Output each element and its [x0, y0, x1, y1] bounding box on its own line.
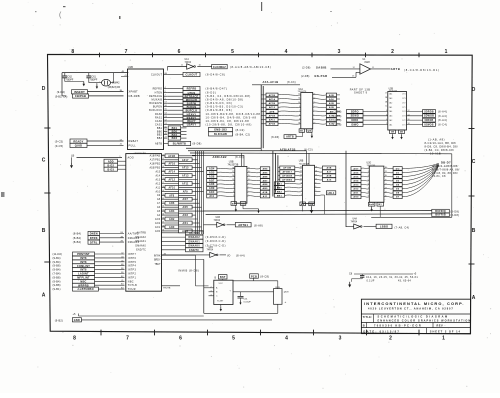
svg-text:AO2: AO2 — [353, 188, 359, 191]
svg-text:AO4: AO4 — [169, 210, 175, 213]
pin 2 — [209, 287, 214, 289]
wire — [204, 224, 217, 226]
ground — [235, 205, 237, 207]
wire — [361, 171, 369, 174]
wire — [192, 198, 197, 200]
wire — [371, 216, 452, 218]
wire bus — [190, 152, 452, 155]
wire — [364, 226, 377, 228]
ground — [401, 134, 403, 135]
svg-text:7: 7 — [299, 110, 300, 112]
wire — [247, 183, 260, 186]
svg-text:(9-B8): (9-B8) — [53, 275, 61, 279]
pins B1 QB — [299, 129, 305, 133]
svg-text:READY: READY — [73, 139, 83, 143]
svg-text:1Y4: 1Y4 — [402, 111, 405, 113]
svg-text:BLD/AHB: BLD/AHB — [214, 133, 227, 136]
svg-text:6: 6 — [386, 115, 387, 117]
svg-text:13: 13 — [232, 179, 234, 181]
net AF1B — [266, 122, 278, 126]
svg-text:74F04: 74F04 — [185, 62, 192, 64]
svg-text:1Y2: 1Y2 — [402, 120, 405, 122]
svg-text:D2: D2 — [396, 176, 400, 178]
ground — [392, 134, 394, 135]
svg-text:AF1B: AF1B — [269, 102, 276, 105]
svg-text:2Y2: 2Y2 — [402, 102, 405, 104]
wire — [337, 98, 340, 100]
svg-text:12: 12 — [408, 110, 410, 112]
svg-text:A5: A5 — [157, 210, 161, 213]
svg-text:(9-B1/9-D3, D3): (9-B1/9-D3, D3) — [206, 101, 233, 105]
wire — [384, 171, 393, 174]
svg-text:U3B: U3B — [229, 161, 234, 164]
wire — [337, 94, 340, 96]
svg-text:(8-A4): (8-A4) — [236, 254, 245, 258]
wire — [315, 194, 321, 196]
svg-text:B: B — [42, 228, 46, 234]
wire — [247, 179, 260, 182]
svg-text:EN: EN — [232, 203, 236, 205]
wire — [121, 76, 128, 78]
svg-text:REFRO: REFRO — [153, 88, 163, 91]
svg-text:INSERT: INSERT — [74, 90, 85, 94]
svg-text:INTP4: INTP4 — [128, 265, 137, 268]
net BUFR/B — [432, 213, 450, 217]
svg-text:BUFR/B: BUFR/B — [435, 214, 446, 217]
wire bus — [186, 147, 261, 149]
net ADD — [104, 159, 118, 163]
svg-text:REFRB: REFRB — [187, 88, 197, 91]
wire — [402, 166, 438, 197]
svg-text:SDRO: SDRO — [351, 110, 359, 113]
svg-text:A8: A8 — [157, 198, 161, 201]
svg-text:(2-D8): (2-D8) — [334, 119, 342, 122]
svg-text:A1B/PB3: A1B/PB3 — [149, 167, 160, 170]
svg-text:AF14: AF14 — [269, 98, 276, 101]
svg-text:5: 5 — [231, 49, 234, 55]
svg-text:AO3: AO3 — [353, 184, 359, 187]
svg-text:TOTLB: TOTLB — [128, 284, 137, 287]
svg-text:AF15: AF15 — [182, 167, 189, 170]
svg-text:U14: U14 — [209, 247, 214, 249]
svg-text:XPABT: XPABT — [129, 91, 139, 94]
svg-text:(3-D8): (3-D8) — [450, 211, 459, 214]
svg-text:13: 13 — [298, 98, 300, 100]
wire — [337, 106, 340, 108]
svg-text:QB: QB — [308, 130, 312, 132]
wire — [361, 183, 369, 186]
svg-text:LBBO: LBBO — [380, 225, 388, 229]
wire — [87, 140, 124, 142]
svg-text:2: 2 — [368, 167, 369, 169]
net AF1BB3 — [280, 178, 295, 182]
svg-text:6: 6 — [315, 186, 316, 188]
svg-text:(9-C5): (9-C5) — [55, 144, 64, 148]
title block — [361, 299, 470, 333]
svg-text:13: 13 — [300, 178, 302, 180]
svg-text:AB8: AB8 — [263, 183, 269, 186]
svg-text:AF14: AF14 — [168, 171, 175, 174]
svg-text:(8-B4, C2): (8-B4, C2) — [236, 132, 251, 136]
svg-text:(8-B4): (8-B4) — [73, 240, 81, 244]
net AF12 — [266, 106, 278, 110]
wire AF vertical — [260, 85, 262, 149]
svg-text:DTRK: DTRK — [90, 237, 98, 240]
svg-text:4020 LEUVERTON CT., ANAHEIM,: 4020 LEUVERTON CT., ANAHEIM, CA 92807 — [368, 307, 454, 310]
svg-text:AO7: AO7 — [183, 198, 189, 201]
ground — [258, 209, 260, 211]
net BB0 — [274, 186, 284, 190]
ground — [349, 282, 351, 285]
wire — [346, 226, 354, 228]
net AF11 — [266, 118, 278, 122]
svg-text:(10-28/9-88, D8, C8/10-A8): (10-28/9-88, D8, C8/10-A8) — [206, 122, 252, 126]
svg-text:(1-AB, A8): (1-AB, A8) — [428, 138, 445, 142]
svg-text:B1: B1 — [300, 130, 304, 132]
svg-text:AF10: AF10 — [168, 186, 175, 189]
wire — [220, 254, 227, 256]
wire — [179, 194, 196, 196]
svg-text:A: A — [42, 293, 46, 299]
svg-text:7: 7 — [368, 187, 369, 189]
svg-text:(8-A4): (8-A4) — [438, 115, 447, 118]
wire — [313, 102, 327, 105]
svg-text:17: 17 — [298, 94, 300, 96]
svg-text:8: 8 — [368, 192, 369, 194]
wire — [363, 115, 388, 117]
net AO4 — [351, 179, 361, 183]
wire — [384, 179, 393, 182]
svg-text:A1B: A1B — [327, 175, 332, 178]
svg-text:TL497: TL497 — [217, 301, 224, 303]
svg-text:(9-B4): (9-B4) — [53, 268, 61, 272]
svg-text:DMAAK0: DMAAK0 — [135, 245, 146, 248]
svg-text:AO3: AO3 — [183, 214, 189, 217]
ground — [220, 307, 222, 309]
svg-text:AF12: AF12 — [168, 179, 175, 182]
svg-text:INMIB (8-D8): INMIB (8-D8) — [178, 268, 199, 272]
capacitor C61 — [88, 73, 90, 76]
svg-text:10-C8/9-B4, D4/9-88, C8/3-A8: 10-C8/9-B4, D4/9-88, C8/3-A8 — [206, 116, 257, 120]
wire — [313, 122, 327, 125]
wire — [361, 195, 369, 198]
svg-text:IOWO: IOWO — [351, 124, 359, 127]
svg-text:SDWOB: SDWOB — [424, 116, 434, 118]
net AF1B — [266, 101, 278, 105]
svg-text:A15: A15 — [327, 179, 332, 182]
wire — [295, 171, 303, 174]
svg-text:2: 2 — [386, 123, 387, 125]
wire — [168, 66, 187, 68]
wire — [274, 153, 276, 193]
net SDWOB — [407, 115, 423, 117]
svg-text:(8-B4, C4, D8/9-D8/10-D8): (8-B4, C4, D8/9-D8/10-D8) — [206, 94, 251, 98]
svg-text:AFA-AF1B: AFA-AF1B — [263, 80, 279, 84]
svg-text:GND: GND — [74, 319, 80, 322]
wire — [217, 179, 235, 182]
wire — [179, 202, 200, 204]
svg-text:BRDY: BRDY — [154, 260, 161, 262]
wire — [192, 190, 203, 192]
wire — [354, 273, 413, 275]
svg-text:B1: B1 — [379, 204, 383, 206]
svg-text:9: 9 — [315, 182, 316, 184]
net LBL1 — [326, 191, 335, 195]
svg-text:8-D8, C8, D8/8-B4, D8/: 8-D8, C8, D8/8-B4, D8/ — [425, 145, 458, 149]
svg-text:1A4: 1A4 — [389, 110, 392, 113]
svg-text:(9-B1/9-B3, D3/10-C3): (9-B1/9-B3, D3/10-C3) — [206, 105, 244, 109]
svg-text:AB9: AB9 — [263, 187, 269, 190]
svg-text:AFB/AF1B: AFB/AF1B — [280, 147, 296, 151]
svg-text:U1B: U1B — [216, 217, 221, 219]
wire — [217, 167, 235, 170]
wire — [88, 91, 124, 93]
wire — [227, 224, 236, 226]
wire — [285, 190, 303, 193]
svg-text:7: 7 — [301, 186, 302, 188]
svg-text:10-C8/9-B4/9-88, D3/8-C8/10-88: 10-C8/9-B4/9-88, D3/8-C8/10-88 — [206, 112, 261, 116]
svg-text:AF11: AF11 — [269, 119, 276, 122]
net PCB — [250, 274, 259, 278]
svg-text:A11: A11 — [156, 186, 161, 189]
wire — [179, 155, 196, 157]
svg-text:(8-D4/9-A8, D8/10-D8): (8-D4/9-A8, D8/10-D8) — [206, 98, 244, 102]
ground — [311, 206, 313, 207]
svg-text:10-81, C8: 10-81, C8 — [432, 175, 446, 178]
svg-text:AB7: AB7 — [263, 179, 269, 182]
svg-text:D: D — [42, 86, 46, 92]
net AF1B1B — [280, 174, 295, 178]
wire — [192, 183, 199, 185]
svg-text:(2-D8): (2-D8) — [301, 74, 310, 78]
svg-text:AO5: AO5 — [209, 171, 215, 174]
svg-text:A1B: A1B — [329, 106, 334, 109]
wire — [384, 195, 393, 198]
wire — [179, 179, 198, 181]
wire — [233, 280, 254, 282]
ground — [240, 301, 242, 303]
svg-text:4: 4 — [285, 336, 288, 342]
svg-text:(8-C3): (8-C3) — [235, 156, 244, 159]
svg-text:OE: OE — [241, 203, 245, 205]
wire — [451, 154, 453, 218]
svg-text:A18/PAB: A18/PAB — [150, 155, 161, 158]
net GMS-1B3 — [209, 127, 233, 131]
ground — [311, 132, 313, 133]
svg-text:4: 4 — [386, 119, 387, 121]
svg-text:CB-DRB: CB-DRB — [129, 95, 140, 98]
svg-text:U14: U14 — [185, 59, 190, 61]
svg-text:3: 3 — [211, 290, 212, 292]
net AO4 — [207, 167, 217, 171]
wire — [337, 115, 340, 117]
svg-text:(8-C4/8-D8/16-D1): (8-C4/8-D8/16-D1) — [404, 68, 440, 72]
svg-text:8: 8 — [299, 106, 300, 108]
svg-text:DTRL: DTRL — [90, 241, 98, 244]
svg-text:SHEET 9: SHEET 9 — [354, 92, 368, 95]
wire — [258, 280, 272, 282]
svg-text:D3: D3 — [396, 181, 400, 183]
svg-text:LB: LB — [71, 154, 74, 158]
svg-text:2A4: 2A4 — [389, 93, 392, 96]
wire — [313, 118, 327, 121]
svg-text:8: 8 — [71, 49, 74, 55]
wire — [384, 175, 393, 178]
svg-text:(8-A8): (8-A8) — [254, 224, 263, 228]
crystal Y1 16MHZ — [102, 79, 111, 86]
svg-text:4: 4 — [285, 49, 288, 55]
wire — [192, 175, 195, 177]
svg-text:U9B: U9B — [299, 161, 304, 163]
svg-text:14: 14 — [232, 175, 234, 177]
svg-text:(11-D2): (11-D2) — [53, 252, 63, 256]
wire — [361, 187, 369, 190]
svg-text:AO1: AO1 — [183, 222, 189, 225]
wire — [313, 98, 327, 101]
pins EN OE — [231, 202, 237, 206]
svg-text:AOO: AOO — [128, 156, 134, 159]
svg-text:74F04: 74F04 — [207, 250, 214, 252]
pin 3 — [209, 291, 214, 293]
svg-text:CLKOUT: CLKOUT — [151, 74, 162, 77]
svg-text:CLKOUT: CLKOUT — [186, 74, 198, 77]
wire — [179, 226, 202, 228]
svg-text:DMAAK1: DMAAK1 — [135, 240, 146, 243]
wire — [162, 254, 196, 256]
svg-text:4: 4 — [368, 175, 369, 177]
wire — [363, 119, 388, 121]
svg-text:DMAAK0: DMAAK0 — [189, 245, 201, 248]
svg-text:AF9: AF9 — [183, 190, 189, 193]
svg-text:SDROB: SDROB — [424, 111, 434, 113]
svg-text:A14: A14 — [156, 175, 161, 178]
svg-text:(3-B4, C4, D8/8-C8/: (3-B4, C4, D8/8-C8/ — [425, 148, 455, 152]
svg-text:AO4: AO4 — [353, 180, 359, 183]
svg-text:(9-B1/9-B3, D8): (9-B1/9-B3, D8) — [206, 108, 233, 112]
svg-text:EN: EN — [301, 204, 305, 206]
net AO7 — [207, 179, 217, 183]
wire — [222, 279, 224, 280]
svg-text:5: 5 — [232, 336, 235, 342]
svg-text:17: 17 — [300, 170, 302, 172]
wire — [192, 206, 201, 208]
svg-text:DB-D7: DB-D7 — [441, 160, 451, 164]
svg-text:ARTB: ARTB — [391, 67, 400, 71]
svg-text:(9-B4): (9-B4) — [53, 279, 61, 283]
wire — [315, 178, 323, 181]
wire — [192, 214, 195, 216]
wire — [278, 170, 280, 172]
svg-text:2Y3: 2Y3 — [402, 98, 405, 100]
svg-text:EN-PAR: EN-PAR — [315, 74, 328, 78]
svg-text:DNEN: DNEN — [90, 233, 98, 236]
wire — [315, 187, 321, 189]
net BUFR/Q — [432, 209, 450, 213]
svg-text:AO2: AO2 — [155, 222, 161, 225]
net A1O — [207, 190, 217, 194]
wire — [402, 164, 438, 180]
wire — [278, 174, 280, 176]
svg-text:(9-D6/8-C-D): (9-D6/8-C-D) — [206, 240, 226, 243]
svg-text:4: 4 — [211, 294, 212, 296]
svg-text:GMS-1B3: GMS-1B3 — [214, 129, 227, 132]
svg-text:DATE: 05/15/87: DATE: 05/15/87 — [363, 329, 400, 333]
wire — [277, 155, 279, 188]
wire — [233, 291, 274, 293]
svg-text:3: 3 — [233, 195, 234, 197]
wire — [361, 175, 369, 178]
svg-text:A17/PB1: A17/PB1 — [150, 159, 161, 162]
svg-text:3: 3 — [338, 49, 341, 55]
wire — [247, 167, 260, 170]
ground — [83, 82, 85, 84]
svg-text:D5: D5 — [396, 189, 400, 191]
svg-text:(8-C3): (8-C3) — [287, 81, 296, 84]
wire — [278, 102, 301, 105]
svg-text:AF1B17: AF1B17 — [282, 171, 292, 174]
svg-text:AO1: AO1 — [155, 226, 161, 229]
wire — [332, 76, 356, 78]
net B-D3 — [104, 167, 118, 171]
wire bus — [192, 154, 244, 156]
svg-text:INTERCONTINENTAL MICRO, CORP.: INTERCONTINENTAL MICRO, CORP. — [364, 301, 465, 306]
svg-text:(7-A8, C4): (7-A8, C4) — [395, 225, 410, 229]
pins DIR OE — [368, 202, 375, 206]
wire — [89, 95, 124, 97]
svg-text:DMAAK2: DMAAK2 — [135, 236, 146, 239]
net CLK8MHZ — [212, 64, 228, 68]
svg-text:(8-C3): (8-C3) — [304, 148, 313, 151]
svg-text:74F04: 74F04 — [351, 222, 358, 224]
svg-text:AO4: AO4 — [209, 168, 215, 171]
svg-text:(8-D3): (8-D3) — [206, 91, 217, 95]
svg-text:1A2: 1A2 — [389, 119, 392, 122]
svg-text:TRUTB: TRUTB — [163, 287, 171, 289]
net AO8 — [207, 183, 217, 187]
ground — [371, 206, 373, 207]
svg-text:5: 5 — [315, 190, 316, 192]
net AF1B — [266, 93, 278, 97]
svg-text:0.1UF: 0.1UF — [367, 279, 375, 282]
svg-text:4: 4 — [233, 191, 234, 193]
wire — [278, 98, 301, 101]
net AO5 — [351, 175, 361, 179]
ground — [96, 83, 98, 85]
wire — [192, 222, 199, 224]
svg-text:PCB: PCB — [251, 275, 257, 278]
net BB1 — [274, 182, 284, 186]
svg-text:INTP6: INTP6 — [128, 257, 137, 260]
svg-text:AB5: AB5 — [263, 171, 269, 174]
pins 1B 2B — [390, 130, 396, 134]
svg-text:AF11: AF11 — [182, 183, 189, 186]
wire — [278, 166, 280, 168]
svg-text:B-D2: B-D2 — [108, 164, 115, 167]
svg-text:IOROB: IOROB — [425, 120, 434, 122]
svg-text:INTP5: INTP5 — [128, 261, 137, 264]
svg-text:D: D — [472, 87, 476, 93]
wire — [278, 178, 280, 180]
svg-text:SHEET 2 OF 14: SHEET 2 OF 14 — [430, 329, 461, 333]
wire buses to BUFR — [204, 209, 432, 212]
svg-text:INTP7: INTP7 — [128, 253, 137, 256]
net AO0 — [351, 195, 361, 199]
svg-text:ARTB1: ARTB1 — [238, 223, 248, 227]
svg-text:I/O: I/O — [227, 255, 230, 258]
svg-text:AO3: AO3 — [155, 218, 161, 221]
svg-text:2: 2 — [391, 49, 394, 55]
svg-text:J.LBTURBO: J.LBTURBO — [77, 288, 94, 291]
